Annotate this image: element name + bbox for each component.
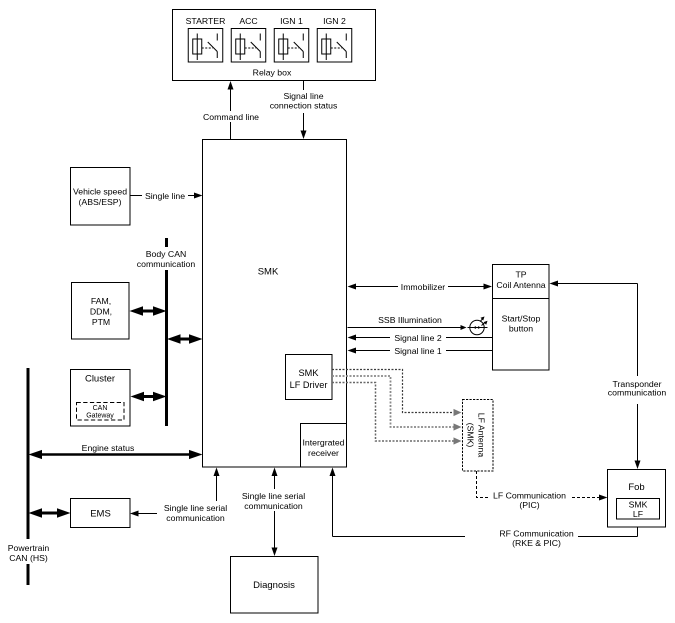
relay ACC	[231, 16, 266, 62]
wire SSB illumination	[348, 315, 467, 330]
svg-text:Command line: Command line	[203, 112, 259, 122]
svg-text:Coil Antenna: Coil Antenna	[496, 280, 545, 290]
svg-text:Single line serial: Single line serial	[242, 491, 305, 501]
wire single line (vehicle speed to SMK)	[130, 190, 203, 201]
wire RF communication (SMK to fob)	[330, 468, 638, 549]
svg-text:communication: communication	[166, 513, 225, 523]
relay IGN 2	[317, 16, 352, 62]
svg-text:EMS: EMS	[90, 509, 111, 520]
svg-text:CAN (HS): CAN (HS)	[9, 553, 48, 563]
block SMK	[203, 140, 347, 468]
block CAN gateway dashed	[77, 403, 125, 421]
wire diagnosis serial line double arrow	[235, 468, 312, 557]
svg-text:communication: communication	[608, 388, 667, 398]
svg-text:Signal line: Signal line	[283, 91, 323, 101]
svg-text:IGN 2: IGN 2	[323, 16, 346, 26]
svg-text:(SMK): (SMK)	[466, 423, 476, 448]
svg-text:ACC: ACC	[239, 16, 257, 26]
wire command line	[202, 81, 261, 139]
wire body CAN to SMK double arrow	[167, 334, 203, 344]
svg-text:LF: LF	[633, 509, 643, 519]
relay IGN 1	[274, 16, 309, 62]
wire signal line 1	[348, 345, 493, 356]
svg-text:TP: TP	[515, 270, 526, 280]
svg-text:Single line serial: Single line serial	[164, 503, 227, 513]
wire transponder communication (TP to fob)	[550, 281, 667, 470]
wire LF drive line A dashed	[332, 370, 462, 417]
svg-text:Gateway: Gateway	[86, 413, 114, 420]
svg-text:Engine status: Engine status	[82, 443, 135, 453]
wire FAM to body CAN double arrow	[130, 306, 167, 316]
svg-text:Signal line 2: Signal line 2	[394, 333, 442, 343]
svg-text:Immobilizer: Immobilizer	[401, 282, 446, 292]
svg-text:SMK: SMK	[629, 500, 648, 510]
svg-text:communication: communication	[137, 259, 196, 269]
wire EMS serial line to SMK	[130, 468, 234, 524]
svg-text:(RKE & PIC): (RKE & PIC)	[512, 538, 561, 548]
svg-text:button: button	[509, 324, 533, 334]
lamp SSB illumination indicator	[468, 317, 488, 335]
svg-text:Diagnosis: Diagnosis	[253, 580, 295, 591]
svg-text:Start/Stop: Start/Stop	[502, 314, 541, 324]
svg-text:Cluster: Cluster	[85, 374, 115, 385]
svg-text:STARTER: STARTER	[186, 16, 226, 26]
block TP coil antenna / start-stop button	[493, 265, 550, 371]
wire LF communication (PIC) to fob dashed	[477, 471, 608, 510]
wire LF drive line C dashed	[332, 383, 462, 445]
wire engine status double arrow	[29, 443, 203, 459]
block vehicle speed (ABS/ESP)	[71, 168, 131, 226]
svg-text:Intergrated: Intergrated	[302, 438, 344, 448]
svg-text:communication: communication	[244, 501, 303, 511]
net body CAN bus	[137, 238, 196, 426]
svg-text:Body CAN: Body CAN	[146, 249, 187, 259]
block fob	[608, 470, 666, 528]
block SMK LF (inside fob)	[617, 499, 660, 520]
block diagnosis	[231, 557, 319, 614]
block LF antenna (SMK) dashed	[463, 400, 494, 472]
svg-text:Relay box: Relay box	[253, 68, 292, 78]
svg-text:PTM: PTM	[92, 317, 110, 327]
svg-text:DDM,: DDM,	[90, 307, 112, 317]
svg-text:FAM,: FAM,	[91, 296, 111, 306]
net powertrain CAN (HS) bus	[8, 368, 50, 585]
block SMK LF driver	[286, 355, 333, 400]
svg-text:Vehicle speed: Vehicle speed	[73, 187, 127, 197]
svg-text:Single line: Single line	[145, 191, 185, 201]
svg-text:receiver: receiver	[308, 448, 339, 458]
wire immobilizer double arrow	[348, 281, 493, 292]
svg-text:connection status: connection status	[270, 101, 338, 111]
block cluster	[71, 370, 131, 427]
svg-text:Signal line 1: Signal line 1	[394, 346, 442, 356]
wire signal line 2	[348, 332, 493, 344]
svg-text:SMK: SMK	[258, 267, 279, 278]
svg-text:LF Driver: LF Driver	[290, 380, 328, 390]
svg-text:CAN: CAN	[93, 405, 108, 412]
wire powertrain CAN to EMS double arrow	[29, 508, 71, 518]
svg-text:LF Antenna: LF Antenna	[477, 413, 487, 458]
block intergrated receiver	[301, 424, 347, 468]
svg-text:SMK: SMK	[299, 368, 320, 378]
svg-text:(ABS/ESP): (ABS/ESP)	[79, 197, 122, 207]
svg-text:Fob: Fob	[628, 482, 644, 493]
wire LF drive line B dashed	[332, 376, 462, 431]
svg-text:(PIC): (PIC)	[519, 500, 539, 510]
block EMS	[71, 499, 131, 528]
svg-text:SSB Illumination: SSB Illumination	[378, 315, 442, 325]
relay STARTER	[186, 16, 226, 62]
svg-text:RF Communication: RF Communication	[499, 529, 574, 539]
svg-text:Powertrain: Powertrain	[8, 543, 50, 553]
wire signal line connection status	[267, 81, 340, 139]
svg-text:IGN 1: IGN 1	[280, 16, 303, 26]
svg-text:LF Communication: LF Communication	[493, 491, 566, 501]
block FAM DDM PTM	[72, 283, 130, 340]
relay box	[173, 10, 376, 81]
wire cluster to body CAN double arrow	[131, 392, 167, 402]
